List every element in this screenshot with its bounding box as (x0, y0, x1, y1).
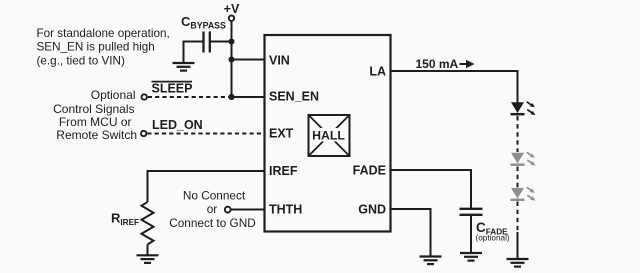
ground for LED string (507, 259, 529, 267)
svg-text:HALL: HALL (312, 128, 345, 142)
hall element symbol (309, 115, 350, 156)
svg-text:(optional): (optional) (476, 234, 510, 243)
svg-text:or: or (207, 202, 218, 216)
node THTH open terminal (225, 207, 231, 213)
wire EXT dashed (147, 133, 264, 135)
capacitor CBYPASS (181, 14, 226, 53)
wire +V supply vertical (231, 21, 233, 97)
svg-text:Control Signals: Control Signals (53, 102, 134, 116)
svg-text:SLEEP: SLEEP (152, 82, 193, 96)
ground for CBYPASS (173, 63, 195, 71)
wire LED string dashed (optional segment 2) (517, 167, 519, 188)
svg-text:LA: LA (369, 64, 386, 78)
svg-text:Connect to GND: Connect to GND (169, 216, 256, 230)
svg-text:LED_ON: LED_ON (152, 118, 203, 132)
svg-text:GND: GND (358, 202, 386, 216)
wire IREF (148, 171, 265, 202)
svg-text:Optional: Optional (91, 88, 136, 102)
svg-text:SEN_EN: SEN_EN (269, 89, 319, 103)
net SLEEP label with overline (152, 82, 193, 96)
ground for GND pin (420, 257, 442, 265)
wire CFADE to ground (470, 215, 472, 253)
resistor RIREF (111, 202, 154, 245)
svg-text:No Connect: No Connect (183, 188, 246, 202)
junction node at CBYPASS tap (229, 39, 235, 45)
svg-text:+V: +V (224, 2, 240, 16)
svg-text:FADE: FADE (353, 163, 386, 177)
wire LA to LED string (391, 71, 518, 103)
svg-text:IREF: IREF (269, 164, 298, 178)
svg-text:Remote Switch: Remote Switch (56, 128, 137, 142)
LED D3 (optional) (511, 186, 537, 203)
LED D1 (511, 100, 537, 117)
ground for CFADE (460, 253, 482, 261)
IC U1 outline (265, 35, 391, 232)
wire THTH (231, 209, 265, 211)
wire FADE (391, 170, 472, 208)
junction node at VIN tap (229, 57, 235, 63)
wire VIN (232, 59, 265, 61)
wire RIREF to ground (147, 245, 149, 255)
wire LED string dashed (optional segment 1) (517, 116, 519, 152)
svg-text:SEN_EN is pulled high: SEN_EN is pulled high (37, 41, 155, 54)
wire SEN_EN solid segment (232, 96, 265, 98)
annotation: standalone operation note (37, 27, 170, 67)
annotation: THTH connect note (169, 188, 256, 230)
node SLEEP open terminal (142, 94, 147, 99)
power terminal +V (224, 2, 240, 21)
capacitor CFADE (460, 209, 510, 243)
svg-text:For standalone operation,: For standalone operation, (37, 27, 170, 40)
wire CBYPASS right plate to +V rail (210, 41, 232, 43)
svg-text:VIN: VIN (269, 53, 290, 67)
wire SLEEP dashed (148, 96, 229, 98)
LED D2 (optional) (511, 151, 537, 168)
svg-text:THTH: THTH (269, 202, 302, 216)
label 150 mA with current arrow (416, 57, 475, 71)
wire GND pin (391, 209, 431, 256)
svg-text:(e.g., tied to VIN): (e.g., tied to VIN) (37, 54, 125, 67)
node LED_ON open terminal (141, 131, 146, 136)
wire CBYPASS left plate to ground (184, 42, 204, 63)
junction node at SEN_EN tap (228, 94, 234, 100)
ground for RIREF (137, 255, 159, 263)
wire LED string to ground (517, 232, 519, 259)
wire LED string dashed (optional segment 3) (517, 202, 519, 233)
annotation: optional control signals (53, 88, 137, 142)
svg-text:150 mA: 150 mA (416, 57, 459, 71)
svg-text:EXT: EXT (269, 126, 294, 140)
